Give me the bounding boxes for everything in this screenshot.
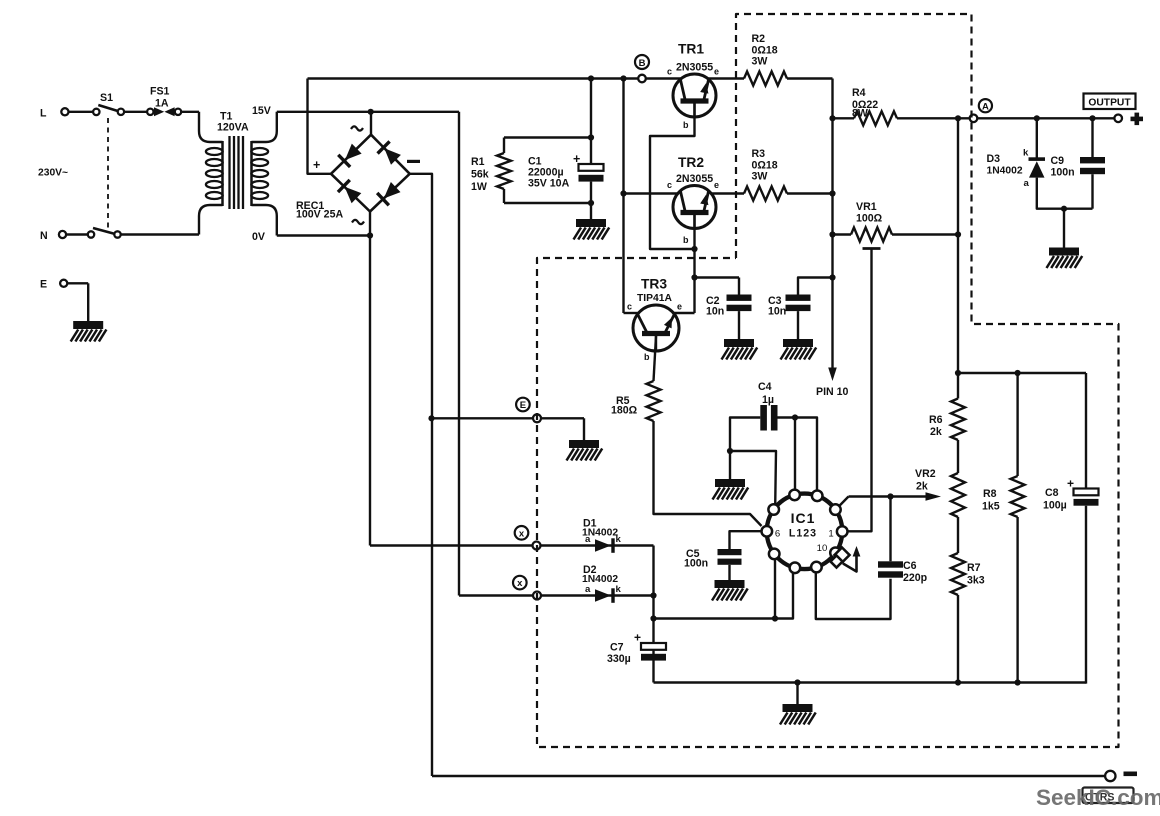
svg-text:R2: R2 [752,33,766,45]
node junction E row [428,415,434,421]
wire bridge - down [410,174,432,776]
node junction C4 right [792,414,798,420]
wire TR2 base down [693,215,695,313]
transformer T1 secondary lead bottom (0V) [252,205,277,236]
svg-text:2N3055: 2N3055 [676,173,713,185]
wire 15V drop to D2 row [458,112,460,596]
bridge - label [407,160,420,163]
svg-text:b: b [644,352,650,362]
node B label circle [635,55,649,69]
capacitor C5 [718,549,742,555]
diode D3 [1029,157,1046,161]
ground (C1) [576,219,606,227]
resistor R2 [744,72,787,86]
node junction C6 tap [887,493,893,499]
wire TR3 emitter to C2 [695,276,740,278]
wire C9 top lead [1091,118,1093,157]
wire C5 bottom lead [728,565,730,580]
ground (common rail) [783,704,813,712]
resistor R6 [951,399,965,440]
wire TR3 collector stub [624,312,639,314]
wire E row [432,417,585,419]
svg-text:3W: 3W [752,171,768,183]
svg-text:E: E [40,279,47,291]
transformer T1 primary winding [206,148,223,155]
svg-text:k: k [616,584,622,595]
wire junction to upper-left pin [730,451,776,506]
svg-text:SeekIC.com: SeekIC.com [1036,785,1160,810]
wire D3C9 ground stub [1063,209,1065,248]
wire bottom negative rail [432,775,1106,777]
node X2 label circle [513,576,527,590]
node A terminal [970,115,978,123]
transistor TR2 [673,186,716,229]
svg-text:PIN 10: PIN 10 [816,386,848,398]
svg-text:1k5: 1k5 [982,501,1000,513]
fuse FS1 [147,109,153,115]
transformer T1 primary spine [221,141,224,206]
node A label circle [979,99,992,112]
svg-text:IC1: IC1 [791,510,816,526]
svg-text:2k: 2k [930,426,942,438]
wire R2 to junction column [787,77,833,79]
wire C1 branch down [590,79,592,165]
ground (C3) [783,339,813,347]
svg-text:k: k [1023,148,1029,159]
S1-S1b gang dashed link [107,118,109,229]
wire 0V rail [277,234,370,236]
svg-text:b: b [683,120,689,130]
svg-text:C8: C8 [1045,487,1059,499]
svg-text:TIP41A: TIP41A [637,293,672,304]
svg-text:c: c [627,302,632,312]
node junction R8 top [1015,370,1021,376]
wire junction to R4 [833,117,855,119]
svg-text:10n: 10n [706,306,724,318]
stamp box [1083,788,1134,804]
wire R1-C1 top link [504,136,591,138]
node junction rail ground tap [794,679,800,685]
svg-text:1: 1 [828,529,833,540]
capacitor C3 [786,295,811,301]
node junction C3 tap [829,274,835,280]
node junction lower-left pin [772,615,778,621]
capacitor C1 [579,164,604,171]
wire top rail [308,77,682,79]
wire IC pin to VR2 wiper [839,497,849,507]
node junction TR2 collector row [620,190,626,196]
svg-text:+: + [313,158,320,172]
wire TR1 base route [650,103,695,249]
svg-text:15V: 15V [252,105,271,117]
svg-text:L123: L123 [789,528,817,540]
wire C4 ground stub [729,451,731,479]
wire D3 top lead [1036,118,1038,158]
svg-text:x: x [517,578,523,589]
node junction R3 tap [829,190,835,196]
wire C4 right lead [778,416,796,418]
resistor R3 [744,187,787,201]
node junction R6 column top [955,115,961,121]
wire D2 row [459,594,654,596]
node junction D3C9 ground tap [1061,206,1067,212]
node junction R7 bottom [955,679,961,685]
OUTPUT box [1084,94,1136,110]
VR2 wiper arrowhead [926,492,942,500]
wire C4 left lead [730,418,760,452]
capacitor C7 [641,643,666,650]
terminal output - [1105,771,1115,781]
svg-text:8W: 8W [852,108,868,120]
wire C4 to top-right pin [795,418,817,493]
svg-text:R8: R8 [983,488,997,500]
svg-text:35V 10A: 35V 10A [528,178,570,190]
node junction D2 cathode [650,592,656,598]
svg-text:R4: R4 [852,87,866,99]
svg-text:100n: 100n [684,558,708,570]
node junction R4 tap [829,115,835,121]
wire R3 to junction column [787,192,833,194]
svg-text:a: a [585,584,591,595]
bridge diode top-right [378,141,402,165]
svg-text:C7: C7 [610,642,624,654]
svg-text:x: x [519,528,525,539]
diode D2 [595,589,611,601]
svg-text:2N3055: 2N3055 [676,62,713,74]
svg-text:VR1: VR1 [856,201,877,213]
node junction R8/C8 rail [955,370,961,376]
dashed regulator module outline [537,14,1119,747]
bridge diode bottom-right [377,181,401,205]
output - symbol [1124,772,1138,777]
capacitor C8 [1074,489,1099,496]
wire R1-C1 bottom link [504,202,591,204]
svg-text:a: a [585,534,591,545]
wire TR3 base to R5 [654,336,657,381]
svg-text:e: e [714,180,719,190]
svg-text:S1: S1 [100,92,113,104]
svg-text:R7: R7 [967,562,981,574]
resistor R1 [503,138,505,154]
wire TR3 emitter stub [673,312,694,314]
wire junction to VR1 [833,233,852,235]
wire R6-VR2 [957,440,959,473]
svg-text:TR1: TR1 [678,42,704,57]
node junction VR1 tap [829,231,835,237]
bridge AC symbol top [351,126,363,130]
svg-text:b: b [683,235,689,245]
wire E to ground [87,283,89,321]
diode D1 [595,539,611,551]
wire bridge bottom stub [369,212,371,236]
ground (D3/C9) [1049,248,1079,256]
capacitor C9 [1080,157,1105,163]
svg-text:230V~: 230V~ [38,168,68,179]
wire R7 bottom [957,595,959,683]
wire C9 bottom lead [1091,174,1093,209]
wire TR1 e to R2 [708,77,744,79]
wire bridge top vertex to 15V rail [370,112,372,135]
svg-text:120VA: 120VA [217,122,249,134]
wire C8 top lead [1085,373,1087,489]
svg-text:R1: R1 [471,156,485,168]
potentiometer VR1 [851,228,892,242]
wire D1 row [370,544,654,546]
capacitor C6 [878,561,903,567]
switch S1 [93,109,99,115]
transformer T1 primary lead bottom [199,205,223,235]
svg-text:c: c [667,67,672,77]
node junction C1 branch [588,75,594,81]
svg-text:10: 10 [817,543,828,554]
wire D-cathode column [652,546,654,683]
transformer T1 secondary lead top (15V) [252,112,277,142]
node junction D3 tap [1034,115,1040,121]
wire C6 top lead [889,497,891,562]
potentiometer VR2 [951,473,965,517]
resistor R7 [951,553,965,595]
terminal E row [533,414,541,422]
node junction C7 top/rail [650,615,656,621]
wire TR2 collector branch [622,79,624,314]
ground (C5) [715,580,745,588]
node E label circle [516,398,530,412]
wire C2 bottom lead [738,311,740,339]
IC1 pin circles [789,490,800,501]
svg-text:e: e [677,302,682,312]
svg-text:a: a [1024,178,1030,189]
svg-text:220p: 220p [903,572,928,584]
resistor R4 [854,111,897,125]
IC1 pin10 trimmer arrow [843,555,857,572]
terminal output + [1114,115,1122,123]
node X1 label circle [515,526,529,540]
wire PIN10 arrowhead [828,368,837,382]
bridge AC symbol bottom [352,220,364,224]
transistor TR3 [633,305,679,351]
svg-text:e: e [714,67,719,77]
node junction TR3 emitter / C2 [691,274,697,280]
transformer T1 secondary spine [250,141,253,206]
wire TR2 e to R3 [711,192,744,194]
svg-text:C9: C9 [1051,155,1065,167]
resistor R5 [647,381,661,421]
svg-text:100µ: 100µ [1043,500,1067,512]
wire bottom common rail [654,681,1087,683]
svg-text:C4: C4 [758,381,772,393]
capacitor C2 [727,295,752,301]
svg-text:D3: D3 [987,153,1001,165]
wire VR1 right [892,233,958,235]
ground (C2) [724,339,754,347]
wire pin6 to C5 [730,531,763,549]
wire C4 to top-left pin [794,418,796,493]
wire R8 top lead [1016,373,1018,476]
svg-text:N: N [40,230,48,242]
svg-text:330µ: 330µ [607,653,631,665]
transformer T1 core [228,136,230,209]
svg-text:C6: C6 [903,560,917,572]
svg-text:180Ω: 180Ω [611,405,638,417]
capacitor C4 [760,405,767,431]
ground (C4) [715,479,745,487]
svg-text:1A: 1A [155,98,169,110]
svg-text:B: B [639,58,646,69]
node junction TR2 branch [620,75,626,81]
wire VR2-R7 [957,517,959,553]
wire 15V rail [277,111,459,113]
svg-text:0V: 0V [252,231,265,243]
bridge diode top-left [338,143,362,167]
ground (mains earth) [73,321,103,329]
bridge REC1 diamond [331,135,410,212]
svg-text:3k3: 3k3 [967,575,985,587]
svg-text:6: 6 [775,529,780,540]
wire D3 bottom lead [1037,178,1093,209]
output + symbol [1131,117,1144,122]
svg-text:TR3: TR3 [641,277,667,292]
wire R6 column top [957,118,959,398]
wire C2 top lead [738,278,740,295]
node junction C9 tap [1089,115,1095,121]
wire R5 to pin6 [654,421,762,526]
wire ground stub [796,683,798,705]
terminal N [59,231,66,238]
terminal X2 [533,592,541,600]
terminal X1 [533,542,541,550]
wire bridge + to top rail [308,79,332,174]
node junction R1C1 bottom [588,200,594,206]
svg-text:100n: 100n [1051,167,1075,179]
wire emitter junction column [831,79,833,370]
svg-text:3W: 3W [752,55,768,67]
transformer T1 primary lead top [199,112,223,142]
svg-text:56k: 56k [471,169,489,181]
wire R8C8 top rail [958,372,1086,374]
wire C3 bottom lead [797,311,799,339]
node junction R8 bottom [1015,679,1021,685]
ground (E row) [569,440,599,448]
transistor TR1 [673,74,716,117]
wire C3 top lead [798,278,833,295]
VR1 wiper bar [863,247,881,250]
wire E row to ground [583,418,585,440]
wire C1 bottom [590,182,592,219]
terminal E [60,280,67,287]
svg-text:R3: R3 [752,148,766,160]
node junction VR1/R6 column [955,231,961,237]
svg-text:E: E [520,400,526,411]
node junction bases [691,246,697,252]
node B terminal [638,75,646,83]
node junction bridge-top on 15V rail [368,109,374,115]
terminal L [61,108,68,115]
wire R4 to output terminal [897,117,1118,119]
svg-text:VR2: VR2 [915,468,936,480]
svg-text:100V 25A: 100V 25A [296,209,343,221]
resistor R8 [1011,476,1025,517]
svg-text:1N4002: 1N4002 [987,166,1023,177]
IC1 pin10 trimmer diamonds [835,548,850,563]
wire lower-left pin drop [774,557,776,619]
wire rail to IC bottom-left pins [654,571,794,619]
wire C8 bottom lead [1085,506,1087,684]
svg-text:c: c [667,180,672,190]
wire R8 bottom lead [1016,517,1018,683]
node junction C4/ground/pin [727,448,733,454]
svg-text:FS1: FS1 [150,86,170,98]
svg-text:TR2: TR2 [678,155,704,170]
wire 0V drop to D1 row [369,236,371,546]
svg-text:100Ω: 100Ω [856,213,883,225]
svg-text:R6: R6 [929,414,943,426]
IC1 body circle [767,494,843,570]
node junction R1C1 top [588,134,594,140]
node junction 0V/bridge-bottom [367,232,373,238]
switch S1b (N pole) [88,231,94,237]
wire IC bottom-right pin to C6 bottom [816,570,891,620]
wire VR1 wiper to IC pin1 [848,249,872,532]
bridge diode bottom-left [338,180,362,204]
wire TR2 collector row [624,192,678,194]
transformer T1 secondary winding [251,148,268,155]
svg-text:1W: 1W [471,181,487,193]
svg-text:OUTPUT: OUTPUT [1088,98,1131,109]
svg-text:2k: 2k [916,481,928,493]
svg-text:L: L [40,108,47,120]
svg-text:k: k [616,534,622,545]
svg-text:1µ: 1µ [762,394,774,406]
svg-text:A: A [982,101,989,112]
svg-text:10n: 10n [768,306,786,318]
